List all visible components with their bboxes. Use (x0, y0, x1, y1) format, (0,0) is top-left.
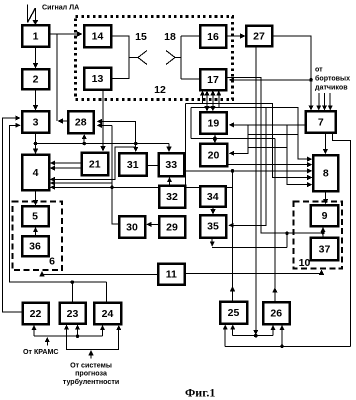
node dot at 214.9,138.1 (213, 137, 217, 141)
svg-text:8: 8 (323, 168, 329, 180)
svg-text:4: 4 (33, 167, 39, 179)
block 20 (200, 144, 227, 167)
block 25 (220, 302, 247, 324)
wire stub into 23 bottom right (77, 325, 79, 336)
wire 35 bottom output to junction line (211, 238, 213, 246)
block 9 (311, 205, 339, 226)
node dot at 112,187.3 (110, 186, 114, 190)
wire 11 right output to box 10 (185, 271, 322, 274)
block 37 (311, 238, 339, 261)
wire H_b branch down into 35 right (229, 108, 266, 226)
mid arrow up on 26 line (274, 288, 276, 296)
svg-text:5: 5 (32, 211, 38, 223)
wire sensor arrow c into 7 (329, 93, 331, 110)
arrow down into 19 from stub c (212, 108, 214, 111)
arrowhead into 24 bottom second (118, 326, 120, 330)
svg-text:32: 32 (166, 191, 178, 203)
wire 25 top line up to 33-net (232, 171, 234, 301)
wire sensor arrow b into 7 (324, 93, 326, 110)
block 33 (159, 153, 185, 176)
svg-text:26: 26 (270, 308, 282, 320)
antenna 15 feed lines from 14,13 (111, 36, 138, 79)
arrow down into 7 top (310, 100, 312, 110)
svg-text:Сигнал ЛА: Сигнал ЛА (42, 4, 79, 12)
wire cluster stub from wire-B tee into 4 (51, 182, 112, 184)
svg-text:10: 10 (299, 257, 311, 269)
svg-text:7: 7 (318, 117, 324, 129)
wire 36 to 5 (35, 228, 37, 236)
block 36 (22, 236, 49, 256)
node dot at 84.2 (82, 142, 86, 146)
svg-text:20: 20 (208, 150, 220, 162)
wire 31 to 33 (147, 164, 159, 166)
block 16 (200, 25, 226, 48)
wire 27 right loop: to 17 and down into 7 (272, 36, 311, 110)
wire 13 to 21 (102, 90, 104, 151)
svg-text:13: 13 (92, 73, 104, 85)
wire branch down to 20 (230, 125, 248, 153)
wire 17 stub d (x218.8) right-corridor into 8 (185, 104, 311, 178)
svg-text:3: 3 (33, 117, 39, 129)
wire 37 to 9 (322, 228, 324, 238)
wire stub into 25 bottom b (232, 325, 234, 335)
wire cluster stub x114.8 into 4 (51, 147, 136, 180)
wire block1 right loop to node at x57 (49, 34, 57, 121)
svg-text:датчиков: датчиков (315, 84, 348, 92)
block 28 (68, 111, 94, 133)
svg-text:от: от (315, 66, 323, 74)
wire 7 to 8 (324, 133, 326, 154)
block 31 (119, 153, 147, 176)
wire from bus up then left into 28 right edge (98, 121, 136, 143)
node dot at 322.9,232.6 (321, 231, 325, 235)
wire 17 stub b (x207) to 19 (206, 91, 208, 99)
block 35 (200, 215, 226, 238)
wire turbulence source arrow (90, 351, 92, 359)
block 11 (158, 264, 185, 285)
wire 2 to 3 (35, 89, 37, 110)
svg-text:23: 23 (67, 308, 79, 320)
block 22 (23, 303, 49, 325)
wire 34 to 35 (212, 207, 214, 214)
wire 1 to 2 (35, 47, 37, 68)
block 27 (246, 26, 272, 47)
wire 35 junction line right (212, 247, 287, 249)
signal input symbol (Сигнал ЛА) (28, 5, 39, 26)
wire bus1 y335.7 feeding 25,26 (233, 335, 273, 337)
svg-text:15: 15 (135, 31, 147, 43)
svg-text:22: 22 (30, 308, 42, 320)
wire branch down into 33 top (168, 144, 170, 152)
svg-text:27: 27 (253, 31, 265, 43)
wire 17 stub c (x212.9) down to 19 with branch right (212, 99, 214, 108)
wire 3 to 4 (35, 133, 37, 154)
arrow up into 17 bottom c (212, 91, 214, 99)
wire link segment x287 between box10-line and 35-line (286, 233, 288, 248)
svg-text:21: 21 (89, 159, 101, 171)
block 5 (22, 206, 49, 226)
arrow up into 17 bottom d (218, 91, 220, 107)
mid arrow up on 25 line (232, 287, 234, 295)
dashed box 10 (294, 202, 343, 269)
arrow down into 19 from stub b (206, 99, 208, 111)
wire 22 left loop up into 3 (3, 118, 23, 312)
block 32 (159, 186, 185, 208)
wire 23 top branch (71, 282, 73, 302)
wire 17 right output down right-corridor to box10 node line (226, 77, 323, 233)
arrow down onto bus1 (255, 327, 257, 334)
block 29 (159, 216, 185, 238)
antenna 18 (166, 51, 181, 65)
block 23 (60, 303, 86, 324)
arrowhead into 23 bottom left (65, 325, 67, 330)
svg-text:35: 35 (207, 221, 219, 233)
block 24 (94, 303, 121, 325)
svg-text:37: 37 (319, 244, 331, 256)
wire 8 to 9 (325, 191, 327, 203)
svg-text:11: 11 (166, 269, 177, 281)
block 21 (82, 153, 109, 176)
block 2 (22, 69, 49, 89)
node dot at 212.9,107.7 (211, 106, 215, 110)
block 34 (200, 186, 226, 207)
svg-text:1: 1 (33, 31, 39, 43)
svg-text:12: 12 (154, 84, 166, 96)
node dot at 311,79.9 (309, 78, 313, 82)
svg-text:34: 34 (207, 191, 219, 203)
svg-text:17: 17 (207, 74, 219, 86)
block 26 (263, 302, 290, 324)
dashed box 6 (13, 202, 63, 271)
block 7 (306, 111, 336, 132)
wire 32 to 33 (169, 178, 171, 186)
wire stub into 24 bottom first (102, 326, 104, 336)
wire 29 to 30 (147, 223, 159, 225)
wire KRAMS source arrow (46, 338, 48, 346)
wire 4 to 5 (35, 190, 37, 205)
wire branch down into 31 top (135, 144, 137, 152)
wire long bus y143.5 from node on 3-4 wire to 33 (36, 143, 170, 145)
antenna 18 lines to 16,17 (181, 36, 200, 79)
arrowhead into 28 right B (98, 124, 105, 126)
svg-text:От системы: От системы (70, 362, 112, 370)
wire 20 right output into 8 (227, 164, 312, 166)
wire 11 left output to box 6 (42, 272, 158, 275)
wire 1 to 14 (57, 33, 82, 35)
svg-text:28: 28 (75, 117, 87, 129)
wire branch up into 28 bottom (83, 135, 85, 144)
wire 24 top branch (106, 282, 108, 302)
node dot at 255.8,335.7 (254, 334, 258, 338)
dashed box 12 (76, 17, 233, 100)
svg-text:18: 18 (164, 31, 176, 43)
node dot at 232.5,170.9 (231, 169, 235, 173)
svg-text:36: 36 (29, 241, 41, 253)
wire turbulence bus y349 feeding 23,24 (66, 325, 118, 349)
wire y187.3 from 25-line tee into 4 (51, 186, 233, 188)
svg-text:бортовых: бортовых (315, 75, 350, 83)
wire left vertical from H_a down to 4-feed line (184, 104, 186, 188)
wire stub into 26 bottom b (281, 326, 283, 347)
wire stub into 25 bottom a (224, 325, 226, 346)
wire stub into 22 bottom (33, 326, 35, 336)
wire stub into 26 bottom a (272, 326, 274, 336)
block 30 (119, 216, 145, 238)
node dot at 135.7 (134, 142, 138, 146)
block 8 (313, 155, 338, 191)
wire branch B tie to corner vertical (248, 134, 298, 136)
wire 27 bottom long line down to bus1 (255, 46, 257, 334)
wire 7 bottom right loop down to bus2 (333, 133, 351, 347)
node dot on 3-4 wire (34, 142, 38, 146)
svg-text:6: 6 (49, 256, 55, 268)
wire 28 right edge B to 30 left (98, 125, 119, 224)
svg-text:31: 31 (127, 159, 139, 171)
svg-text:2: 2 (33, 74, 39, 86)
svg-text:турбулентности: турбулентности (63, 378, 119, 386)
svg-text:9: 9 (322, 210, 328, 222)
wire left vertical from H_b down to 19-20 net line (190, 108, 192, 139)
svg-text:19: 19 (208, 118, 220, 130)
block 17 (200, 69, 226, 90)
wire sensor arrow a into 7 (318, 93, 320, 110)
wire bus2 y345.5 from 7-loop feeding 25,26 (225, 345, 350, 347)
svg-text:От КРАМС: От КРАМС (23, 348, 59, 356)
svg-text:25: 25 (228, 307, 240, 319)
wire 26 top line up to 19-20 net (274, 138, 276, 301)
wire 33 right output long line into 8 (184, 170, 311, 172)
wire 21 to 4 upper (51, 162, 81, 164)
wire stub c branch right down to 35 right (191, 108, 312, 160)
svg-text:прогноза: прогноза (75, 370, 107, 378)
arrow up into 17 bottom a (202, 91, 204, 104)
svg-text:Фиг.1: Фиг.1 (185, 386, 215, 400)
svg-text:14: 14 (92, 31, 104, 43)
wire 19 to 20 with tee (214, 134, 216, 143)
block 19 (200, 112, 227, 134)
wire 16 to 27 (226, 35, 245, 37)
wire antenna to 16 (181, 35, 200, 37)
svg-text:30: 30 (126, 222, 138, 234)
node dot at 286.9,233.2 (285, 231, 289, 235)
block 4 (22, 155, 49, 191)
block 14 (84, 25, 111, 47)
antenna 15 (138, 51, 147, 65)
wire branch tie at y147.6 (248, 147, 287, 149)
wire 28 left output arrow to node (59, 120, 69, 122)
block 1 (22, 25, 49, 47)
svg-text:33: 33 (165, 159, 177, 171)
svg-text:16: 16 (207, 31, 219, 43)
wire spine x287 from 7-line down into 8 lower arrow (287, 125, 312, 185)
block 13 (84, 68, 111, 90)
wire junction left into 17 right (230, 79, 312, 81)
node dot at 282,345.5 (280, 345, 284, 349)
wire 7 left output to 19 (230, 124, 306, 126)
node dot at 72.3,282.1 (71, 280, 75, 284)
wire 23,24 tops bus into 3 (10, 125, 107, 282)
wire KRAMS bus y336 feeding 22,23,24 (34, 335, 103, 337)
wire tee right to 26 line (191, 137, 275, 139)
block 3 (22, 111, 49, 133)
wire 21 to 4 lower (51, 167, 81, 169)
node dot at 77.5,336.2 (76, 334, 80, 338)
svg-text:29: 29 (166, 222, 178, 234)
svg-text:24: 24 (102, 308, 114, 320)
